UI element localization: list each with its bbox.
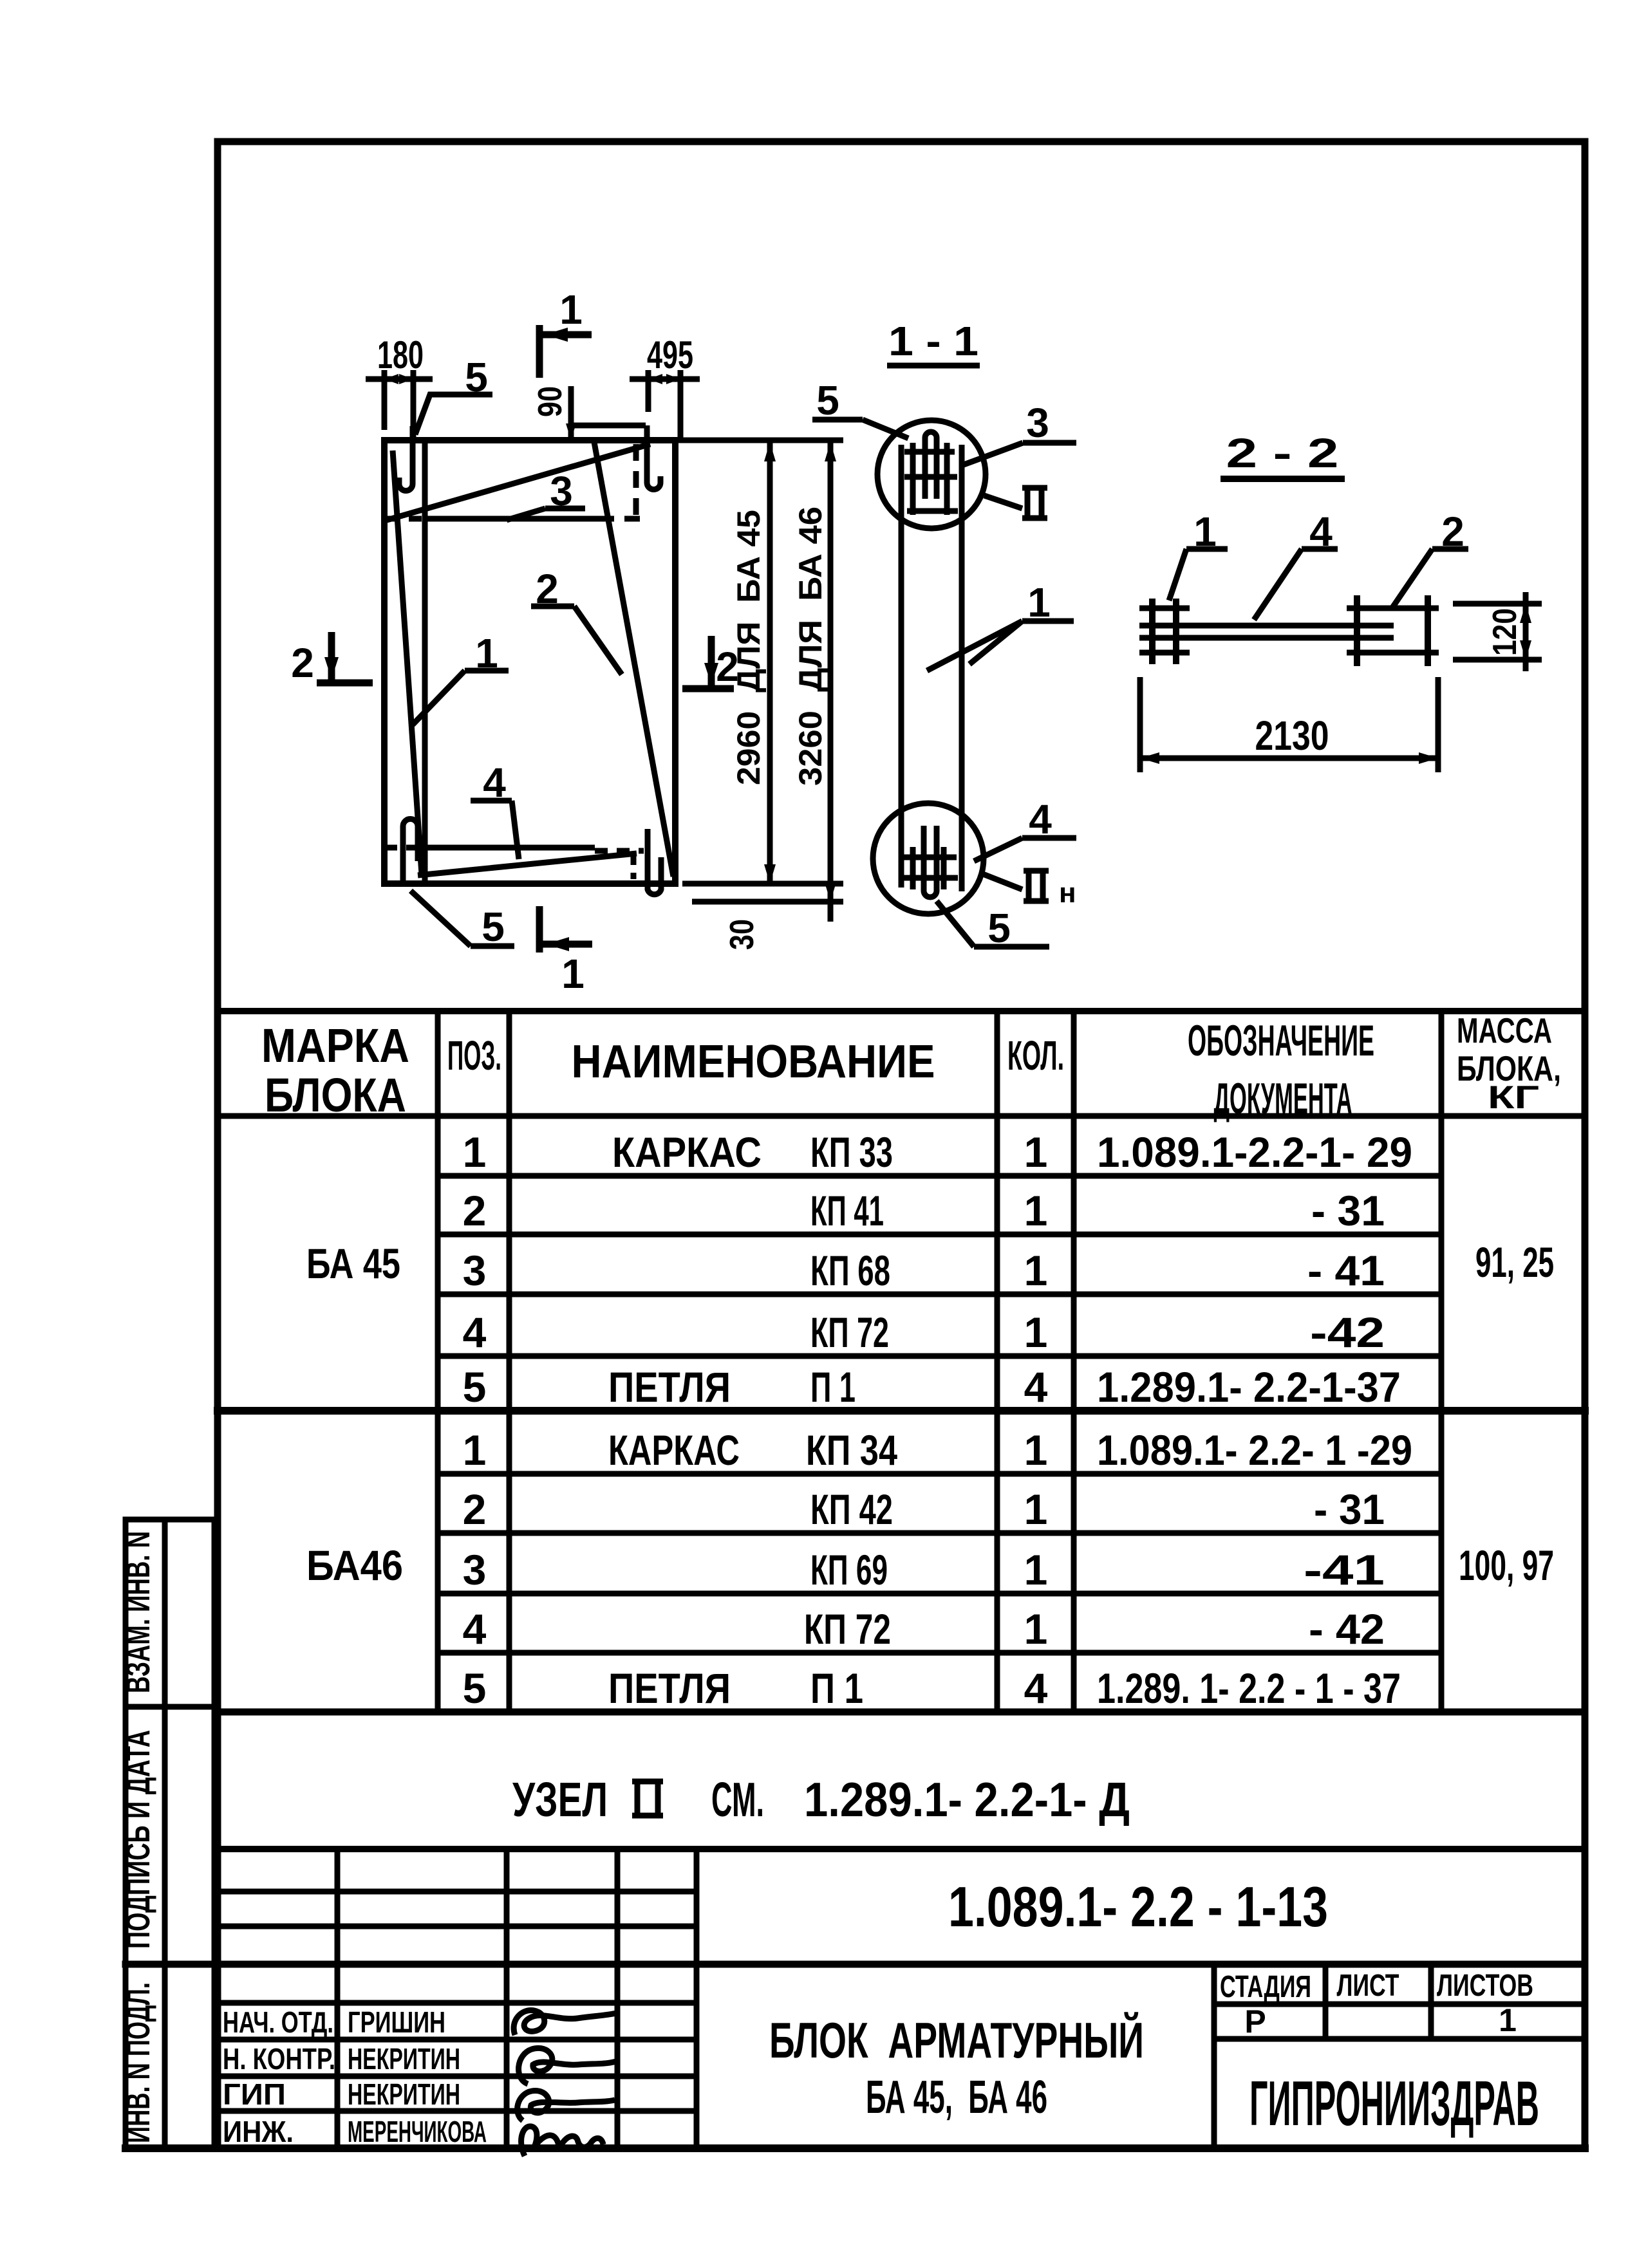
svg-text:- 41: - 41 [1307, 1247, 1385, 1294]
svg-text:ПОДПИСЬ И ДАТА: ПОДПИСЬ И ДАТА [120, 1730, 157, 1949]
svg-text:Н. КОНТР.: Н. КОНТР. [223, 2042, 335, 2076]
svg-text:4: 4 [483, 759, 506, 806]
svg-text:3260 ДЛЯ БА 46: 3260 ДЛЯ БА 46 [792, 507, 828, 786]
svg-text:1: 1 [1024, 1128, 1048, 1176]
svg-text:4: 4 [1309, 508, 1333, 555]
svg-text:КП 34: КП 34 [806, 1426, 897, 1474]
svg-text:1: 1 [1027, 579, 1051, 626]
svg-text:КП 41: КП 41 [810, 1187, 884, 1234]
svg-text:4: 4 [1029, 796, 1052, 842]
svg-text:1: 1 [1024, 1187, 1048, 1234]
svg-text:-42: -42 [1310, 1308, 1385, 1356]
svg-text:1.089.1-2.2-1- 29: 1.089.1-2.2-1- 29 [1097, 1128, 1412, 1176]
svg-text:90: 90 [532, 386, 569, 417]
svg-text:5: 5 [987, 905, 1011, 951]
svg-text:- 42: - 42 [1309, 1605, 1385, 1653]
svg-text:- 31: - 31 [1311, 1187, 1385, 1234]
svg-text:ОБОЗНАЧЕНИЕ: ОБОЗНАЧЕНИЕ [1188, 1016, 1374, 1065]
svg-text:1.089.1- 2.2 - 1-13: 1.089.1- 2.2 - 1-13 [948, 1875, 1328, 1938]
svg-text:4: 4 [463, 1605, 487, 1653]
svg-text:1: 1 [463, 1426, 487, 1474]
svg-text:КП 42: КП 42 [810, 1485, 893, 1533]
svg-text:БА 45, БА 46: БА 45, БА 46 [866, 2072, 1047, 2123]
svg-text:495: 495 [647, 333, 693, 376]
svg-text:3: 3 [1026, 400, 1049, 446]
svg-text:н: н [1059, 877, 1076, 909]
svg-text:ДОКУМЕНТА: ДОКУМЕНТА [1214, 1074, 1352, 1123]
svg-text:-41: -41 [1304, 1546, 1385, 1594]
svg-text:1.289.1- 2.2-1- Д: 1.289.1- 2.2-1- Д [804, 1772, 1130, 1826]
svg-text:НАИМЕНОВАНИЕ: НАИМЕНОВАНИЕ [572, 1036, 935, 1088]
svg-text:100, 97: 100, 97 [1459, 1541, 1554, 1589]
svg-text:БЛОКА: БЛОКА [265, 1068, 406, 1122]
svg-text:НАЧ. ОТД.: НАЧ. ОТД. [223, 2005, 333, 2039]
svg-text:Р: Р [1244, 2003, 1266, 2040]
svg-text:ЛИСТ: ЛИСТ [1337, 1969, 1399, 2003]
svg-text:1: 1 [559, 286, 583, 333]
svg-text:2: 2 [1441, 508, 1464, 555]
svg-text:2130: 2130 [1255, 712, 1329, 759]
svg-text:КП 72: КП 72 [804, 1605, 891, 1653]
svg-text:91, 25: 91, 25 [1475, 1238, 1554, 1286]
svg-text:П 1: П 1 [810, 1664, 863, 1712]
svg-text:КП 69: КП 69 [810, 1546, 888, 1594]
svg-text:1: 1 [1024, 1546, 1048, 1594]
svg-text:ВЗАМ. ИНВ. N: ВЗАМ. ИНВ. N [120, 1531, 157, 1693]
svg-text:5: 5 [463, 1664, 487, 1712]
svg-text:1: 1 [1499, 2002, 1517, 2038]
svg-text:3: 3 [550, 468, 573, 514]
svg-text:МАССА: МАССА [1457, 1010, 1552, 1050]
svg-text:4: 4 [1024, 1363, 1048, 1411]
svg-text:1: 1 [463, 1128, 487, 1176]
svg-text:2: 2 [716, 644, 739, 690]
svg-text:5: 5 [463, 1363, 487, 1411]
svg-text:1.089.1- 2.2- 1 -29: 1.089.1- 2.2- 1 -29 [1097, 1426, 1412, 1474]
svg-text:КП 72: КП 72 [810, 1308, 889, 1356]
svg-text:НЕКРИТИН: НЕКРИТИН [348, 2042, 460, 2076]
svg-text:30: 30 [724, 919, 761, 950]
svg-text:УЗЕЛ: УЗЕЛ [512, 1772, 608, 1826]
svg-text:3: 3 [463, 1247, 487, 1294]
svg-text:1: 1 [1024, 1308, 1048, 1356]
svg-text:1: 1 [561, 951, 585, 997]
svg-text:П 1: П 1 [810, 1363, 856, 1411]
svg-text:КГ: КГ [1488, 1079, 1539, 1115]
svg-text:1 - 1: 1 - 1 [888, 318, 978, 364]
svg-text:КП 33: КП 33 [810, 1128, 893, 1176]
svg-text:ПЕТЛЯ: ПЕТЛЯ [608, 1363, 731, 1411]
svg-text:ИНВ. N ПОДЛ.: ИНВ. N ПОДЛ. [120, 1982, 157, 2143]
svg-text:НЕКРИТИН: НЕКРИТИН [348, 2077, 460, 2111]
svg-text:КП 68: КП 68 [810, 1247, 890, 1294]
svg-text:180: 180 [377, 333, 424, 376]
svg-text:2 - 2: 2 - 2 [1226, 430, 1339, 476]
svg-text:4: 4 [463, 1308, 487, 1356]
svg-text:СТАДИЯ: СТАДИЯ [1220, 1970, 1311, 2004]
svg-text:4: 4 [1024, 1664, 1048, 1712]
svg-text:1.289.1- 2.2-1-37: 1.289.1- 2.2-1-37 [1097, 1363, 1401, 1411]
svg-text:2: 2 [536, 566, 559, 612]
svg-text:ГИП: ГИП [223, 2077, 286, 2111]
svg-text:КОЛ.: КОЛ. [1007, 1032, 1064, 1079]
svg-text:КАРКАС: КАРКАС [612, 1128, 762, 1176]
svg-text:СМ.: СМ. [711, 1772, 764, 1826]
svg-text:БЛОК АРМАТУРНЫЙ: БЛОК АРМАТУРНЫЙ [769, 2012, 1144, 2068]
svg-text:ГРИШИН: ГРИШИН [348, 2005, 445, 2039]
svg-text:МАРКА: МАРКА [261, 1019, 409, 1072]
svg-text:1: 1 [1024, 1426, 1048, 1474]
svg-text:1: 1 [1024, 1485, 1048, 1533]
svg-text:5: 5 [465, 354, 488, 400]
svg-text:5: 5 [482, 904, 505, 950]
svg-text:120: 120 [1486, 608, 1524, 656]
svg-text:ПОЗ.: ПОЗ. [447, 1032, 501, 1079]
svg-text:ЛИСТОВ: ЛИСТОВ [1437, 1969, 1533, 2003]
svg-text:1: 1 [475, 630, 498, 676]
svg-text:1: 1 [1024, 1247, 1048, 1294]
svg-text:1: 1 [1024, 1605, 1048, 1653]
svg-text:2: 2 [291, 640, 314, 686]
svg-text:3: 3 [463, 1546, 487, 1594]
svg-text:5: 5 [816, 377, 839, 423]
svg-text:- 31: - 31 [1314, 1485, 1385, 1533]
svg-text:ИНЖ.: ИНЖ. [223, 2115, 294, 2148]
svg-text:БА46: БА46 [306, 1541, 403, 1589]
svg-text:2: 2 [463, 1187, 487, 1234]
svg-text:1: 1 [1193, 508, 1217, 555]
svg-text:ПЕТЛЯ: ПЕТЛЯ [608, 1664, 731, 1712]
svg-text:БА 45: БА 45 [306, 1240, 400, 1287]
svg-text:КАРКАС: КАРКАС [608, 1426, 740, 1474]
svg-text:ГИПРОНИИЗДРАВ: ГИПРОНИИЗДРАВ [1249, 2068, 1539, 2139]
svg-text:1.289. 1- 2.2 - 1 - 37: 1.289. 1- 2.2 - 1 - 37 [1097, 1664, 1401, 1712]
svg-text:2: 2 [463, 1485, 487, 1533]
svg-text:МЕРЕНЧИКОВА: МЕРЕНЧИКОВА [348, 2115, 487, 2148]
